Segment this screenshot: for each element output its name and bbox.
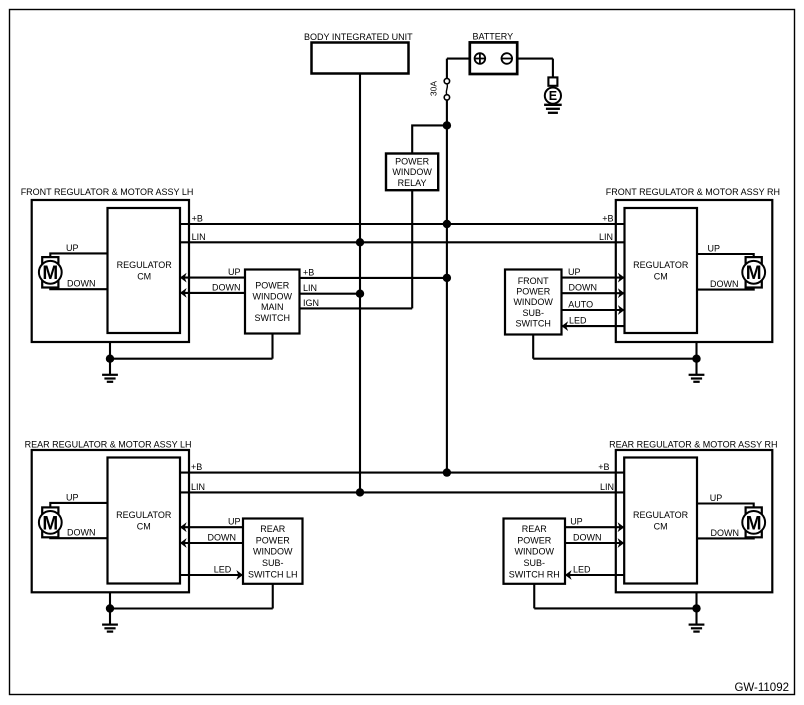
svg-text:POWER: POWER — [395, 156, 430, 166]
svg-text:WINDOW: WINDOW — [253, 291, 293, 301]
svg-text:CM: CM — [137, 521, 151, 531]
svg-text:BODY INTEGRATED UNIT: BODY INTEGRATED UNIT — [304, 32, 413, 42]
svg-text:LIN: LIN — [599, 232, 613, 242]
svg-text:SWITCH LH: SWITCH LH — [248, 569, 298, 579]
svg-text:DOWN: DOWN — [711, 528, 740, 538]
svg-text:CM: CM — [137, 272, 151, 282]
svg-text:FRONT: FRONT — [518, 276, 549, 286]
svg-text:SWITCH: SWITCH — [515, 319, 551, 329]
svg-text:LIN: LIN — [192, 232, 206, 242]
svg-text:DOWN: DOWN — [67, 528, 96, 538]
svg-text:REAR: REAR — [522, 524, 548, 534]
svg-text:LED: LED — [569, 316, 587, 326]
svg-text:LIN: LIN — [191, 482, 205, 492]
svg-text:CM: CM — [654, 521, 668, 531]
svg-text:M: M — [42, 263, 58, 284]
svg-text:REGULATOR: REGULATOR — [633, 260, 689, 270]
svg-text:REGULATOR: REGULATOR — [117, 260, 173, 270]
svg-text:DOWN: DOWN — [208, 533, 237, 543]
svg-text:WINDOW: WINDOW — [513, 297, 553, 307]
svg-text:FRONT REGULATOR & MOTOR ASSY L: FRONT REGULATOR & MOTOR ASSY LH — [21, 187, 194, 197]
svg-text:UP: UP — [66, 243, 79, 253]
svg-text:LED: LED — [214, 565, 232, 575]
svg-text:SUB-: SUB- — [262, 558, 284, 568]
svg-text:GW-11092: GW-11092 — [734, 682, 789, 694]
svg-text:DOWN: DOWN — [710, 279, 739, 289]
svg-text:+B: +B — [191, 462, 202, 472]
svg-text:CM: CM — [654, 272, 668, 282]
svg-text:UP: UP — [710, 493, 723, 503]
svg-text:+B: +B — [303, 267, 314, 277]
svg-text:AUTO: AUTO — [568, 300, 593, 310]
svg-text:REGULATOR: REGULATOR — [116, 510, 172, 520]
svg-text:SUB-: SUB- — [522, 308, 544, 318]
svg-text:IGN: IGN — [303, 298, 319, 308]
svg-text:BATTERY: BATTERY — [472, 31, 513, 41]
svg-text:+B: +B — [602, 214, 613, 224]
svg-text:M: M — [746, 513, 762, 534]
svg-text:LIN: LIN — [600, 482, 614, 492]
svg-text:M: M — [746, 263, 762, 284]
svg-text:M: M — [42, 513, 58, 534]
svg-text:UP: UP — [708, 244, 721, 254]
svg-text:+B: +B — [598, 462, 609, 472]
svg-text:SWITCH RH: SWITCH RH — [509, 569, 560, 579]
svg-text:MAIN: MAIN — [261, 302, 284, 312]
svg-text:LED: LED — [573, 565, 591, 575]
svg-text:WINDOW: WINDOW — [392, 167, 432, 177]
svg-text:DOWN: DOWN — [212, 282, 241, 292]
svg-text:DOWN: DOWN — [569, 283, 598, 293]
svg-text:30A: 30A — [429, 81, 439, 96]
svg-text:POWER: POWER — [256, 535, 291, 545]
svg-text:REGULATOR: REGULATOR — [633, 510, 689, 520]
svg-text:SUB-: SUB- — [523, 558, 545, 568]
svg-text:REAR REGULATOR & MOTOR ASSY RH: REAR REGULATOR & MOTOR ASSY RH — [609, 439, 777, 449]
svg-text:REAR: REAR — [260, 524, 286, 534]
svg-text:FRONT REGULATOR & MOTOR ASSY R: FRONT REGULATOR & MOTOR ASSY RH — [606, 187, 780, 197]
svg-text:POWER: POWER — [517, 535, 552, 545]
svg-text:+B: +B — [192, 214, 203, 224]
svg-text:RELAY: RELAY — [398, 178, 427, 188]
svg-text:UP: UP — [228, 517, 241, 527]
svg-text:REAR REGULATOR & MOTOR ASSY LH: REAR REGULATOR & MOTOR ASSY LH — [25, 439, 192, 449]
svg-text:UP: UP — [570, 517, 583, 527]
svg-text:E: E — [549, 89, 557, 103]
svg-text:WINDOW: WINDOW — [253, 547, 293, 557]
svg-text:UP: UP — [66, 492, 79, 502]
svg-text:WINDOW: WINDOW — [515, 547, 555, 557]
svg-text:UP: UP — [228, 267, 241, 277]
svg-text:SWITCH: SWITCH — [255, 313, 291, 323]
svg-text:DOWN: DOWN — [573, 533, 602, 543]
svg-text:POWER: POWER — [255, 281, 290, 291]
svg-text:LIN: LIN — [303, 283, 317, 293]
svg-text:DOWN: DOWN — [67, 279, 96, 289]
svg-text:UP: UP — [568, 267, 581, 277]
svg-text:POWER: POWER — [516, 287, 551, 297]
